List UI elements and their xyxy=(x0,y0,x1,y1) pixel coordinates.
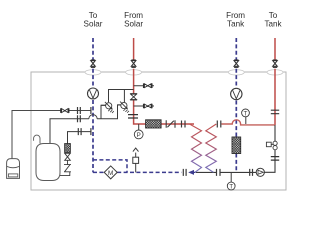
wall grommet ellipse (to solar) xyxy=(85,70,101,75)
union (before heat exchanger) xyxy=(182,121,186,128)
safety group pipe (row 3) xyxy=(68,132,91,144)
To Solar pipe (blue dashed riser) xyxy=(92,38,94,90)
isolation valve (to tank riser) xyxy=(273,60,278,67)
air vent xyxy=(133,148,139,172)
isolation valve (from tank riser) xyxy=(234,60,239,67)
check valve (flap) xyxy=(166,120,175,127)
isolation valve (to solar riser) xyxy=(91,60,96,67)
union (hx secondary bottom) xyxy=(217,169,221,176)
drain valve branch (upper) xyxy=(134,85,154,87)
gate valve (from solar) xyxy=(130,94,137,100)
svg-text:Tank: Tank xyxy=(227,19,245,28)
expansion vessel xyxy=(7,159,20,179)
union (from solar) xyxy=(128,115,138,118)
flange (row 3 to pipe) xyxy=(90,128,92,135)
wall grommet ellipse (from tank) xyxy=(228,70,244,75)
check valve 2 xyxy=(118,102,130,113)
union (row 3) xyxy=(78,128,81,135)
expansion vessel pipe xyxy=(12,111,91,159)
drain valve (upper) xyxy=(144,83,152,88)
storage tank xyxy=(36,144,60,181)
bottom secondary line xyxy=(196,171,256,173)
check valve header line xyxy=(109,90,134,103)
filter (hatched) xyxy=(146,120,162,128)
check valve 1 xyxy=(101,102,114,113)
svg-text:Tank: Tank xyxy=(264,19,282,28)
tank pump xyxy=(231,88,242,99)
solar pump xyxy=(88,88,99,99)
From Solar pipe (red riser) xyxy=(134,38,194,124)
union (tank return riser) xyxy=(271,157,279,161)
union (to tank riser) xyxy=(271,110,279,114)
pump bypass dashed loop xyxy=(93,160,127,173)
From Tank pipe inside box xyxy=(235,101,237,173)
svg-text:Solar: Solar xyxy=(84,19,103,28)
To Tank pipe (red riser) xyxy=(274,38,276,125)
tank-side return dark pipe xyxy=(264,125,275,172)
valve (tank safety line) xyxy=(65,153,71,160)
heat exchanger primary coil xyxy=(190,124,202,172)
pressure gauge xyxy=(134,124,143,139)
svg-text:T: T xyxy=(244,111,248,117)
svg-text:T: T xyxy=(229,184,233,190)
From Tank pipe (blue dashed riser) xyxy=(235,38,237,87)
union (row 2) xyxy=(78,115,81,122)
drain valve (lower) xyxy=(144,104,152,109)
flow meter (hatched) xyxy=(65,144,71,153)
isolation valve (from solar riser) xyxy=(131,60,136,67)
hop over To Solar pipe xyxy=(89,115,97,119)
secondary pump xyxy=(256,168,264,176)
drain valve branch (lower) xyxy=(134,105,154,107)
flange (vessel line to pipe) xyxy=(90,107,92,114)
shut-off valve (vessel line) xyxy=(61,108,69,113)
strainer on from tank (hatched) xyxy=(232,137,241,154)
solar return bottom dashed run xyxy=(93,171,182,173)
pigtail siphon xyxy=(34,135,40,143)
union (hx secondary top) xyxy=(217,121,221,128)
svg-text:Solar: Solar xyxy=(124,19,143,28)
heat exchanger secondary coil xyxy=(206,124,217,172)
motor pump diamond xyxy=(104,166,117,179)
union (solar return bottom) xyxy=(183,169,186,176)
enclosure box xyxy=(31,72,286,190)
svg-text:M: M xyxy=(108,170,113,177)
wall grommet ellipse (to tank) xyxy=(267,70,283,75)
heat exchanger outlet red run with hop xyxy=(222,120,276,125)
wall grommet ellipse (from solar) xyxy=(126,70,142,75)
thermometer (to tank) xyxy=(242,109,250,124)
svg-text:P: P xyxy=(137,132,141,139)
To Solar pipe inside box xyxy=(92,100,94,172)
tank connection pipe (row 2) xyxy=(50,105,121,144)
thermometer (tank return) xyxy=(227,172,235,190)
union (tank bottom) xyxy=(250,169,253,176)
safety relief valve xyxy=(60,165,71,176)
union (vessel line) xyxy=(78,107,81,114)
flow arrow (hx primary outlet) xyxy=(190,171,196,173)
motorized valve xyxy=(266,141,277,150)
